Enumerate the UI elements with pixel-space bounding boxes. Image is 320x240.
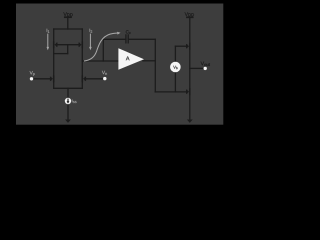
wire Iss to ground (67, 104, 69, 119)
wire Vn to M2 gate (85, 78, 105, 80)
signal path curve annotation (84, 33, 118, 61)
transistor M5 arrow (186, 44, 189, 49)
ground symbol left (65, 120, 71, 123)
label A (op-amp gain) (126, 56, 130, 60)
transistor M4 channel bar (82, 41, 84, 48)
transistor M6 channel bar (189, 88, 191, 95)
label Vout (201, 62, 210, 66)
label Cc (126, 30, 131, 34)
node Vout dot (204, 67, 207, 70)
label Vp (30, 71, 35, 76)
ground symbol right (187, 120, 193, 123)
wire Cc left vertical (102, 39, 104, 61)
transistor M3 gate bar (56, 43, 57, 47)
transistor M1 arrow (50, 76, 53, 81)
label Vb (173, 66, 177, 69)
transistor M2 gate bar (85, 77, 86, 81)
wire tail drop (67, 88, 69, 98)
label VDD right (185, 12, 194, 16)
wire top rail (54, 28, 83, 30)
wire left branch (M3 source-drain, M1 drain-source) (53, 29, 55, 88)
transistor M1 channel bar (53, 75, 55, 82)
transistor M4 gate bar (79, 43, 80, 47)
label Iss (72, 100, 76, 103)
voltage source Vb circle (170, 62, 181, 73)
wire Vout tap (190, 67, 204, 69)
current annotation arrow I1 (47, 34, 49, 48)
current annotation arrow I2 (89, 34, 91, 48)
wire right branch (M4, node X, M2) (81, 29, 83, 88)
wire diode drop (67, 45, 69, 54)
transistor M4 arrow (79, 42, 82, 47)
node Vn dot (103, 77, 106, 80)
wire mirror gate line (57, 44, 79, 46)
label Vn (102, 71, 107, 75)
wire M5 gate to Vb (175, 45, 186, 47)
transistor M6 gate bar (186, 90, 187, 94)
wire Vp to M1 gate (32, 78, 51, 80)
wire to M6 gate (155, 91, 186, 93)
wire op-amp output (143, 60, 155, 62)
capacitor Cc plates (126, 35, 128, 43)
power bar VDD right (187, 16, 193, 18)
node Vp dot (30, 77, 33, 80)
transistor M3 arrow (54, 42, 57, 47)
wire diode connection (54, 53, 68, 55)
transistor M2 arrow (83, 76, 86, 81)
wire Cc top right (128, 38, 155, 40)
transistor M2 channel bar (82, 75, 84, 82)
transistor M1 gate bar (50, 77, 51, 81)
transistor M3 channel bar (53, 41, 55, 48)
current source Iss circle (65, 98, 71, 104)
wire Cc top left (103, 38, 126, 40)
wire right column (M5, Vout node, M6) (189, 17, 191, 119)
power bar VDD left (65, 16, 71, 18)
wire Vb bottom to M6 gate line (174, 72, 176, 92)
op-amp U1 triangle (118, 48, 144, 70)
wire Vb top drop (174, 46, 176, 62)
schematic panel (16, 4, 223, 125)
label VDD left (63, 12, 72, 16)
wire tail rail (54, 87, 83, 89)
wire node X to op-amp input (82, 60, 118, 62)
transistor M6 arrow (186, 89, 189, 94)
current source Iss arrow (67, 99, 69, 102)
label I2 (90, 29, 93, 33)
label I1 (47, 29, 50, 33)
transistor M5 channel bar (189, 43, 191, 50)
transistor M5 gate bar (186, 44, 187, 48)
wire feedback right vertical (154, 39, 156, 92)
wire VDD left drop (67, 17, 69, 29)
